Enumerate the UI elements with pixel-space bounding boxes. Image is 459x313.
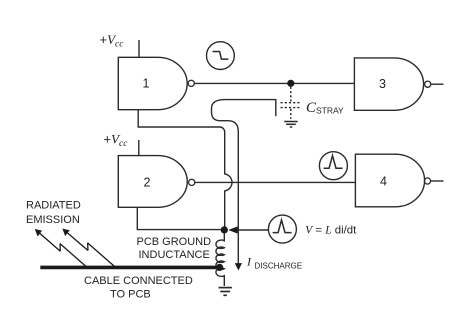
nand gate U2 body: [118, 156, 187, 208]
Vcc pin wire of U1: [138, 40, 140, 57]
gate U3 output bubble: [425, 81, 431, 87]
radiated emission lightning arrow 1: [39, 233, 87, 268]
gate U4 output bubble: [424, 178, 430, 184]
svg-text:RADIATED: RADIATED: [26, 199, 81, 211]
gate U2 output bubble: [189, 179, 195, 185]
gate U1 output bubble: [188, 80, 194, 86]
capacitor CSTRAY (dashed stray capacitance): [281, 87, 302, 119]
cable conductor (thick line): [40, 266, 222, 270]
svg-text:TO PCB: TO PCB: [110, 288, 151, 300]
inductor PCB ground inductance: [216, 233, 224, 286]
ground symbol at bottom: [219, 288, 232, 296]
ground wire of U2 to common ground node: [137, 207, 221, 229]
pulse waveform symbol circle at U4 input: [319, 152, 347, 180]
svg-text:+Vcc: +Vcc: [104, 132, 129, 150]
svg-text:1: 1: [143, 77, 150, 91]
svg-text:CSTRAY: CSTRAY: [306, 100, 344, 116]
svg-text:EMISSION: EMISSION: [26, 214, 80, 226]
svg-text:4: 4: [380, 175, 387, 189]
Vcc pin wire of U2: [138, 140, 140, 156]
arrowhead of IDISCHARGE: [235, 263, 242, 270]
nand gate U1 body: [118, 57, 187, 109]
discharge current path line from CSTRAY ground down to inductor: [212, 100, 276, 264]
nand gate U4 body: [355, 154, 424, 207]
svg-text:CABLE CONNECTED: CABLE CONNECTED: [84, 275, 193, 287]
ground wire of U1 down to common ground node (with hop over U2 output wire): [138, 110, 232, 227]
pulse symbol circle for V = L di/dt: [268, 215, 296, 243]
wire from V source circle to node A with arrowhead: [236, 229, 268, 231]
svg-text:V = L di/dt: V = L di/dt: [305, 225, 357, 237]
junction node at stray capacitance: [287, 80, 294, 87]
ground for CSTRAY: [284, 122, 297, 128]
svg-text:INDUCTANCE: INDUCTANCE: [139, 249, 210, 261]
svg-text:2: 2: [144, 176, 151, 190]
gate U4 output stub wire: [431, 180, 444, 182]
node A common ground junction: [221, 226, 228, 233]
radiated emission lightning arrow 2: [66, 232, 115, 267]
svg-text:+Vcc: +Vcc: [100, 32, 125, 50]
node B cable connection junction: [216, 264, 223, 271]
svg-text:I: I: [246, 255, 252, 269]
gate U3 output stub wire: [431, 83, 444, 85]
falling-edge waveform symbol circle: [207, 42, 235, 70]
svg-text:3: 3: [379, 77, 386, 91]
svg-text:DISCHARGE: DISCHARGE: [255, 261, 303, 270]
nand gate U3 body: [354, 58, 423, 110]
wire U1 output to U3 input: [194, 82, 354, 84]
svg-text:PCB GROUND: PCB GROUND: [137, 236, 212, 248]
wire U2 output to U4 input: [195, 181, 356, 183]
